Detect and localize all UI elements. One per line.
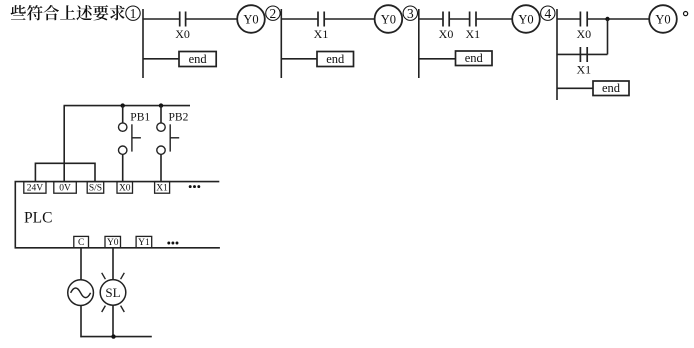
svg-text:0V: 0V: [59, 184, 71, 194]
terminal X0: [117, 182, 133, 194]
node ②: [266, 6, 280, 21]
coil Y0: [375, 5, 403, 33]
node ④: [541, 6, 555, 21]
svg-text:end: end: [602, 81, 621, 95]
contact X1: [314, 12, 329, 42]
lamp SL: [100, 273, 126, 312]
wire: [280, 9, 282, 78]
wire 24V-S/S bracket: [35, 163, 95, 181]
coil Y0: [512, 5, 540, 33]
svg-text:X1: X1: [576, 63, 591, 77]
wire SL down: [112, 305, 114, 337]
pushbutton PB1: [119, 106, 151, 182]
svg-text:X1: X1: [465, 27, 480, 41]
wire Y0 down: [112, 248, 114, 280]
svg-text:C: C: [78, 238, 84, 248]
contact X0: [439, 12, 454, 42]
dots bottom: [167, 242, 178, 245]
wire top horizontal: [64, 105, 191, 107]
wire: [476, 18, 512, 20]
junction dot: [111, 334, 115, 338]
svg-text:Y0: Y0: [655, 12, 670, 26]
dots top: [189, 185, 201, 188]
wire: [556, 9, 558, 100]
svg-text:Y0: Y0: [381, 12, 396, 26]
node ①: [126, 6, 140, 21]
svg-text:end: end: [326, 52, 345, 66]
wire bottom horizontal: [80, 336, 151, 338]
terminal 0V: [54, 182, 77, 194]
char 符: [27, 5, 43, 20]
contact X0: [175, 12, 190, 42]
junction dot: [121, 103, 125, 107]
svg-text:PB2: PB2: [169, 111, 189, 123]
text 些符合上述要求: [11, 5, 125, 20]
wire C down: [80, 248, 82, 280]
wire: [557, 87, 593, 89]
contact X1: [576, 47, 591, 77]
wire: [142, 9, 144, 78]
char 述: [76, 5, 92, 20]
svg-text:end: end: [189, 52, 208, 66]
wire: [186, 18, 238, 20]
char 合: [44, 5, 60, 20]
coil Y0: [649, 5, 677, 33]
svg-text:X1: X1: [314, 27, 329, 41]
svg-text:Y0: Y0: [243, 12, 258, 26]
wire: [324, 18, 374, 20]
svg-text:PB1: PB1: [130, 111, 150, 123]
svg-text:X0: X0: [175, 27, 190, 41]
wire: [419, 58, 456, 60]
end box: [179, 52, 216, 67]
char 求: [110, 5, 125, 20]
svg-text:end: end: [465, 51, 484, 65]
wire AC down: [80, 305, 82, 337]
text 。: [684, 12, 688, 16]
wire: [607, 19, 609, 54]
wire: [556, 53, 607, 55]
char 上: [60, 5, 75, 19]
pushbutton PB2: [157, 106, 189, 182]
svg-text:2: 2: [270, 6, 277, 21]
char 要: [93, 5, 108, 20]
terminal S/S: [87, 182, 104, 194]
terminal Y0: [105, 236, 121, 248]
wire: [142, 18, 179, 20]
contact X1: [465, 12, 480, 42]
wire: [587, 18, 649, 20]
svg-text:X0: X0: [576, 27, 591, 41]
svg-text:PLC: PLC: [24, 210, 52, 227]
wire: [143, 58, 179, 60]
svg-text:X0: X0: [119, 184, 131, 194]
terminal X1: [155, 182, 170, 194]
svg-text:1: 1: [130, 6, 137, 21]
svg-text:Y0: Y0: [107, 238, 119, 248]
PLC box: [15, 182, 220, 248]
svg-text:4: 4: [544, 6, 551, 21]
AC source: [68, 280, 94, 306]
terminal Y1: [136, 236, 152, 248]
junction dot: [605, 17, 609, 21]
end box: [456, 51, 493, 66]
svg-text:SL: SL: [105, 285, 120, 300]
wire: [418, 18, 443, 20]
svg-text:3: 3: [407, 6, 414, 21]
svg-text:Y0: Y0: [518, 12, 533, 26]
node ③: [403, 6, 417, 21]
end box: [593, 81, 629, 96]
svg-text:24V: 24V: [27, 184, 44, 194]
svg-text:Y1: Y1: [138, 238, 150, 248]
wire: [281, 58, 317, 60]
wire: [418, 9, 420, 78]
end box: [317, 52, 354, 67]
char 些: [11, 5, 26, 20]
wire: [281, 18, 318, 20]
terminal 24V: [24, 182, 46, 194]
wire: [449, 18, 469, 20]
coil Y0: [237, 5, 265, 33]
svg-text:X1: X1: [156, 184, 168, 194]
terminal C: [74, 236, 89, 248]
junction dot: [159, 103, 163, 107]
contact X0: [576, 12, 591, 42]
svg-text:S/S: S/S: [89, 184, 102, 194]
wire 0V vertical: [63, 106, 65, 182]
wire: [556, 18, 580, 20]
svg-text:X0: X0: [439, 27, 454, 41]
